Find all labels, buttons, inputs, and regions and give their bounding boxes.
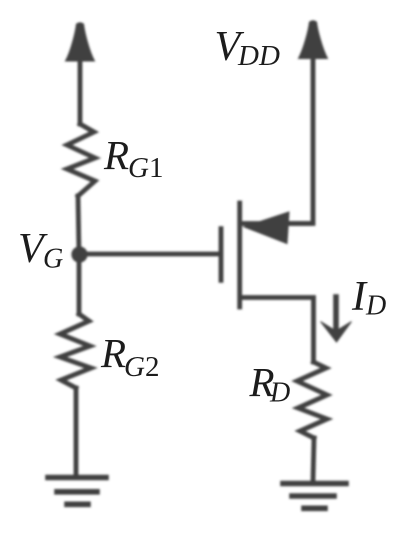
resistor RG2 <box>60 314 91 388</box>
wire <box>74 388 79 475</box>
resistor RD <box>297 362 327 438</box>
supply arrow VDD <box>299 21 328 59</box>
supply arrow left (to VCC) <box>66 23 95 61</box>
wire (VDD to source) <box>289 52 313 224</box>
ground (right) <box>283 484 346 509</box>
wire <box>313 438 314 481</box>
svg-text:R: R <box>103 132 129 178</box>
wire <box>78 55 83 124</box>
transistor Q1 source lead <box>241 221 310 226</box>
svg-text:D: D <box>365 291 386 322</box>
svg-text:G: G <box>43 244 63 275</box>
svg-text:G2: G2 <box>124 351 159 383</box>
svg-text:D: D <box>269 378 290 409</box>
transistor Q1 channel <box>237 203 242 307</box>
svg-text:R: R <box>100 330 126 376</box>
wire <box>78 196 79 254</box>
node VG junction dot <box>72 247 87 262</box>
transistor Q1 gate bar <box>219 229 224 281</box>
current arrow ID <box>321 297 352 342</box>
transistor Q1 source arrow <box>244 212 289 244</box>
transistor Q1 drain lead <box>241 298 314 363</box>
resistor RG1 <box>67 124 95 196</box>
svg-text:G1: G1 <box>128 152 163 184</box>
svg-text:DD: DD <box>237 40 280 72</box>
ground (left) <box>48 478 106 505</box>
wire (gate) <box>79 252 220 257</box>
wire <box>77 254 82 314</box>
